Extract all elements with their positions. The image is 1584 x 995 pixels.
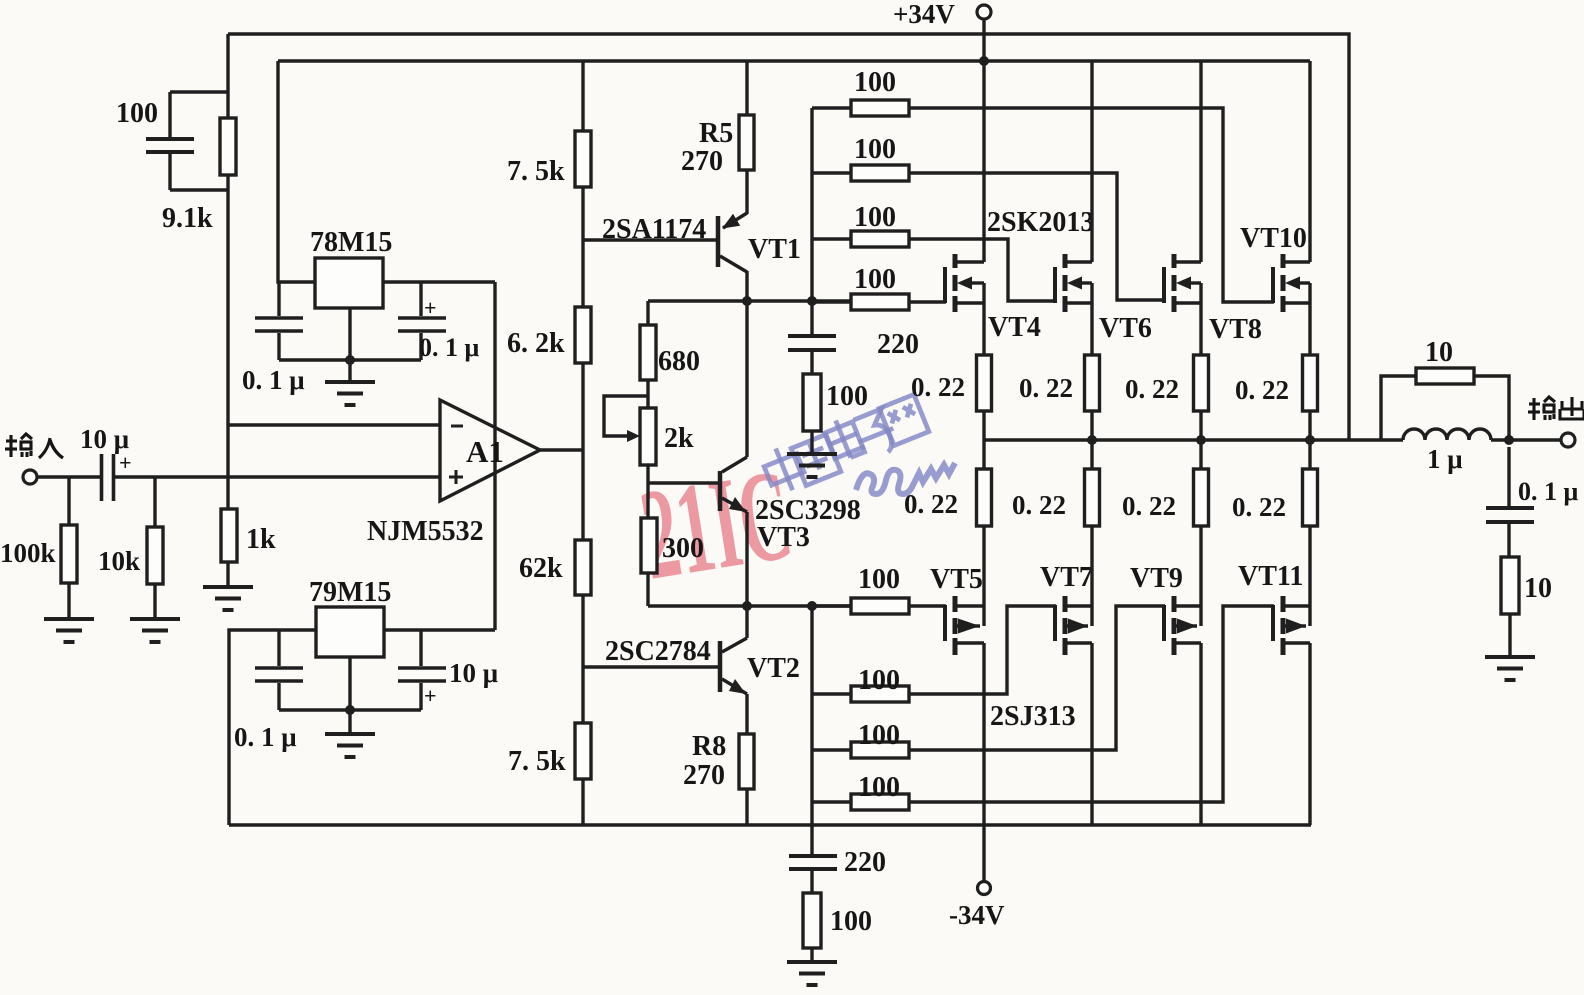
capacitor 10μ input	[80, 424, 132, 501]
resistor 100 gate lower 2	[812, 665, 909, 702]
resistor 100 gate upper 1	[812, 67, 909, 116]
resistor R8 270	[683, 731, 754, 791]
svg-text:0. 22: 0. 22	[904, 489, 958, 519]
resistor 0.22 lower 1	[904, 440, 992, 626]
svg-text:79M15: 79M15	[309, 577, 391, 608]
capacitor 0.1μ reg bot-left	[234, 630, 303, 752]
svg-text:100: 100	[854, 134, 896, 165]
svg-text:100: 100	[826, 381, 868, 412]
ground 1k	[203, 587, 253, 610]
wire 6.2k to 62k	[581, 363, 584, 540]
wire 78M15 ground bottom	[279, 308, 421, 360]
label 2SC3298	[755, 495, 861, 553]
wire 100 to ground upper	[810, 431, 813, 454]
resistor 0.22 lower 4	[1232, 440, 1318, 626]
label 2SA1174	[602, 214, 706, 245]
svg-text:0. 22: 0. 22	[1235, 375, 1289, 405]
wire input to cap	[37, 475, 100, 478]
wire R8 to minus rail	[745, 789, 748, 825]
transistor VT2	[720, 606, 800, 734]
svg-text:2SJ313: 2SJ313	[990, 701, 1076, 732]
wire VT9 drain	[1199, 643, 1202, 825]
svg-text:10: 10	[1425, 337, 1453, 368]
wire VT6 drain	[1090, 61, 1093, 262]
wire feedback rail top	[228, 34, 1349, 440]
svg-text:VT11: VT11	[1238, 561, 1303, 592]
wire gate VT9 route	[909, 606, 1165, 750]
svg-text:0. 1 μ: 0. 1 μ	[419, 333, 480, 362]
ground 10k	[130, 619, 180, 642]
wire +34V rail	[278, 59, 1310, 62]
svg-text:220: 220	[844, 847, 886, 878]
terminal input	[23, 470, 37, 484]
svg-text:VT1: VT1	[748, 234, 801, 265]
decorative watermark chinese	[759, 394, 955, 496]
wire 220 to 100 upper	[810, 350, 813, 374]
svg-text:10k: 10k	[98, 546, 140, 576]
wire gate VT7 route	[909, 606, 1056, 694]
wire 78M15 output to op-amp	[383, 280, 495, 283]
label 2SJ313	[990, 701, 1076, 732]
svg-text:+: +	[424, 683, 437, 708]
wire gate VT10 route	[909, 108, 1274, 302]
svg-text:+: +	[424, 295, 437, 320]
wire 7.5k to minus rail	[581, 779, 584, 825]
resistor 680	[640, 325, 700, 380]
wire 680 to pot	[646, 380, 649, 408]
wire op-amp output	[540, 448, 583, 451]
svg-text:680: 680	[658, 346, 700, 377]
wire VT8 drain	[1199, 61, 1202, 262]
label input 输入	[5, 434, 63, 458]
transistor VT1	[718, 213, 801, 301]
svg-text:0. 1 μ: 0. 1 μ	[1518, 477, 1579, 506]
svg-text:-34V: -34V	[949, 900, 1005, 930]
wire -34V rail	[229, 823, 1311, 826]
svg-text:6. 2k: 6. 2k	[507, 328, 565, 359]
resistor 100 gate upper 3	[812, 202, 909, 247]
resistor 6.2k	[507, 307, 591, 363]
svg-text:100: 100	[858, 564, 900, 595]
resistor 0.22 lower 3	[1122, 440, 1209, 626]
wire 300 to lower node	[646, 573, 649, 606]
wire feedback left vertical	[226, 34, 229, 118]
capacitor 10μ reg bot-right	[398, 630, 498, 710]
wire VT7 drain	[1090, 643, 1093, 825]
wire +34V vertical	[982, 19, 985, 61]
wire gate VT11 route	[909, 606, 1274, 802]
ground 100k	[44, 619, 94, 642]
wire output rail	[984, 438, 1403, 441]
svg-text:270: 270	[681, 146, 723, 177]
resistor 0.22 upper 3	[1125, 283, 1209, 440]
capacitor 220 upper	[788, 329, 919, 360]
wire 680 column top	[646, 301, 649, 325]
transistor VT3	[720, 301, 747, 606]
svg-text:1k: 1k	[246, 524, 276, 555]
wire bias lower vertical	[810, 606, 813, 856]
svg-text:+34V: +34V	[893, 0, 955, 29]
wire 220 to 100 lower	[810, 869, 813, 893]
svg-text:62k: 62k	[519, 553, 563, 584]
wire 9.1k to inverting input	[226, 175, 229, 509]
wire gate VT5 route	[909, 604, 946, 607]
resistor 300	[641, 518, 704, 573]
svg-text:7. 5k: 7. 5k	[508, 746, 566, 777]
wire -34V to 79M15	[229, 630, 316, 825]
svg-text:0. 22: 0. 22	[1125, 374, 1179, 404]
node output rail VT10	[1305, 435, 1315, 445]
svg-text:270: 270	[683, 760, 725, 791]
node bias lower junction	[807, 601, 817, 611]
svg-text:2SK2013: 2SK2013	[987, 207, 1094, 238]
decorative watermark	[632, 442, 801, 608]
svg-text:VT7: VT7	[1040, 562, 1093, 593]
resistor 100 gate lower 1	[812, 564, 909, 614]
transistor Q VT4 2SK2013	[945, 254, 1041, 343]
resistor 0.22 lower 2	[1012, 440, 1100, 626]
node VT3 emitter junction	[742, 601, 752, 611]
resistor 0.22 upper 2	[1019, 283, 1100, 440]
label NJM5532	[367, 516, 484, 547]
resistor 0.22 upper 4	[1235, 283, 1318, 440]
regulator 78M15	[310, 227, 392, 308]
wire gate VT4 route	[909, 300, 946, 303]
resistor 100k	[0, 477, 77, 619]
resistor 100 bias upper	[803, 374, 868, 431]
resistor 100 gate upper 4	[812, 264, 909, 310]
wire rail to 7.5k	[581, 61, 584, 131]
node +34V junction	[979, 56, 989, 66]
wire inverting input	[228, 423, 440, 426]
svg-text:10 μ: 10 μ	[449, 658, 498, 688]
capacitor 0.1μ output	[1486, 447, 1579, 557]
resistor 62k	[519, 540, 591, 595]
inductor 1μ	[1403, 429, 1491, 474]
svg-text:0. 1 μ: 0. 1 μ	[234, 722, 297, 752]
wire 62k to 7.5k bottom	[581, 595, 584, 723]
svg-text:100: 100	[830, 906, 872, 937]
svg-text:0. 22: 0. 22	[1122, 491, 1176, 521]
ground bias lower	[787, 962, 837, 985]
resistor 10k	[98, 477, 163, 619]
svg-text:VT5: VT5	[930, 564, 983, 595]
svg-text:R8: R8	[692, 731, 726, 762]
wire bias node lower	[648, 604, 851, 607]
wire VT10 drain	[1308, 61, 1311, 262]
svg-text:R5: R5	[699, 118, 733, 149]
resistor R5 270	[681, 115, 754, 177]
terminal output	[1561, 433, 1575, 447]
svg-text:100: 100	[858, 772, 900, 803]
resistor 1k	[221, 509, 276, 587]
wire 79M15 output to op-amp	[384, 628, 495, 631]
ground output	[1485, 657, 1535, 680]
svg-text:78M15: 78M15	[310, 227, 392, 258]
svg-text:VT8: VT8	[1209, 314, 1262, 345]
transistor Q VT10 2SK2013	[1240, 223, 1310, 312]
svg-text:2k: 2k	[664, 423, 694, 454]
svg-text:1 μ: 1 μ	[1427, 444, 1463, 474]
wire input line	[114, 475, 441, 478]
svg-text:100: 100	[854, 202, 896, 233]
label output 输出	[1528, 397, 1584, 420]
label 2SC2784	[605, 636, 711, 667]
resistor 7.5k top	[507, 131, 591, 187]
svg-text:300: 300	[662, 533, 704, 564]
svg-text:VT10: VT10	[1240, 223, 1307, 254]
wire VT11 drain	[1308, 643, 1311, 825]
capacitor 0.1μ reg top-right	[398, 282, 480, 362]
wire +34V to 78M15	[278, 61, 315, 282]
svg-text:100: 100	[858, 665, 900, 696]
svg-text:100: 100	[858, 720, 900, 751]
wire R5 to VT1 emitter	[745, 170, 748, 214]
svg-text:0. 1 μ: 0. 1 μ	[242, 365, 305, 395]
svg-text:VT9: VT9	[1130, 563, 1183, 594]
ground 78M15	[325, 360, 375, 405]
wire 100 to ground lower	[810, 948, 813, 962]
node 79M15 ground junction	[345, 705, 355, 715]
terminal +34V	[893, 0, 991, 29]
wire gate VT8 route	[909, 173, 1165, 300]
svg-text:100: 100	[854, 264, 896, 295]
wire VT5 drain to -34V	[982, 643, 985, 881]
svg-text:10: 10	[1524, 573, 1552, 604]
node 78M15 ground junction	[345, 355, 355, 365]
node output rail VT8	[1196, 435, 1206, 445]
transistor Q VT6 2SK2013	[1055, 254, 1152, 344]
transistor Q VT5 2SJ313	[930, 564, 984, 655]
svg-text:VT2: VT2	[747, 653, 800, 684]
svg-text:A1: A1	[466, 434, 504, 469]
resistor 10 output parallel	[1381, 337, 1509, 440]
regulator 79M15	[309, 577, 391, 657]
resistor 100 bias lower	[803, 893, 872, 948]
capacitor 220 lower	[789, 847, 886, 878]
wire 7.5k to 6.2k	[581, 187, 584, 307]
svg-text:NJM5532: NJM5532	[367, 516, 484, 547]
resistor 10 output shunt	[1501, 557, 1552, 657]
wire op-amp V+ V- vertical	[493, 282, 496, 630]
wire bias upper to cap	[810, 301, 813, 336]
resistor 0.22 upper 1	[911, 283, 992, 440]
node VT1 collector junction	[742, 296, 752, 306]
label 2SK2013	[987, 207, 1094, 238]
svg-text:100: 100	[116, 98, 158, 129]
svg-text:0. 22: 0. 22	[1019, 373, 1073, 403]
svg-text:+: +	[119, 450, 132, 475]
wire VT1 base	[583, 238, 718, 241]
node bias upper junction	[807, 296, 817, 306]
wire rail to R5	[745, 61, 748, 115]
svg-text:0. 22: 0. 22	[1012, 490, 1066, 520]
wire inductor to output	[1491, 438, 1561, 441]
svg-text:100: 100	[854, 67, 896, 98]
wire pot to 300	[646, 465, 649, 518]
transistor Q VT8 2SK2013	[1164, 254, 1262, 345]
svg-text:100k: 100k	[0, 538, 56, 568]
resistor 7.5k bottom	[508, 723, 591, 779]
capacitor 100 feedback	[116, 92, 228, 190]
wire VT4 drain	[982, 61, 985, 262]
wire bias upper vertical	[810, 108, 813, 301]
wire VT2 base	[583, 665, 720, 668]
svg-text:9.1k: 9.1k	[162, 203, 213, 234]
svg-text:VT3: VT3	[757, 522, 810, 553]
svg-text:220: 220	[877, 329, 919, 360]
node output rail VT6	[1087, 435, 1097, 445]
wire 79M15 ground bottom	[279, 657, 421, 710]
wire VT3 base	[648, 481, 720, 484]
resistor 9.1k	[162, 118, 236, 234]
transistor Q VT9 2SJ313	[1130, 563, 1201, 655]
node output junction	[1504, 435, 1514, 445]
transistor Q VT7 2SJ313	[1040, 562, 1093, 655]
transistor Q VT11 2SJ313	[1238, 561, 1310, 655]
ground 79M15	[325, 710, 375, 757]
capacitor 0.1μ reg top-left	[242, 282, 305, 395]
op-amp A1	[440, 400, 540, 501]
svg-text:VT4: VT4	[988, 312, 1041, 343]
svg-text:2SC2784: 2SC2784	[605, 636, 711, 667]
ground bias upper	[787, 454, 837, 477]
resistor 100 gate lower 4	[812, 772, 909, 810]
resistor 100 gate upper 2	[812, 134, 909, 181]
svg-text:0. 22: 0. 22	[1232, 492, 1286, 522]
potentiometer 2k	[604, 396, 694, 465]
wire gate VT6 route	[909, 239, 1056, 301]
wire bias node upper	[648, 299, 851, 302]
resistor 100 gate lower 3	[812, 720, 909, 758]
svg-text:0. 22: 0. 22	[911, 372, 965, 402]
svg-text:VT6: VT6	[1099, 313, 1152, 344]
svg-text:7. 5k: 7. 5k	[507, 156, 565, 187]
terminal -34V	[949, 882, 1005, 931]
